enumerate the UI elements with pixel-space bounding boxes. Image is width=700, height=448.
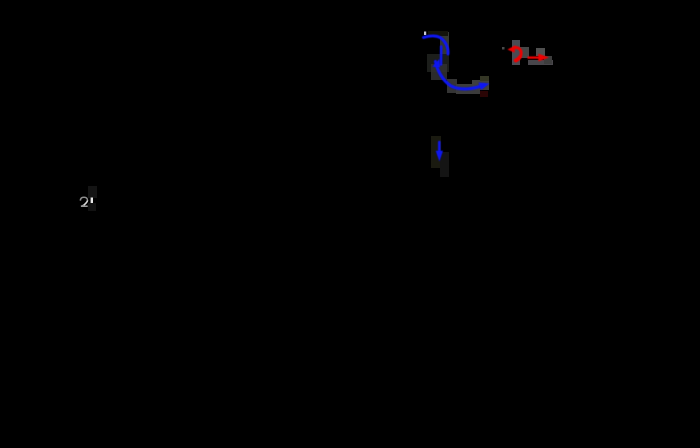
faint gray tick left of red arrow [502,47,505,50]
big blue sweeping arc [436,62,485,89]
arrowhead at left start of big arc (points down-left) [432,59,440,68]
faint marks near label 2 [88,186,97,198]
artifact halos around red arrows [512,40,553,65]
dark red artifact blob under arc end [480,91,488,97]
white tick next to label 2 [91,198,93,204]
red arrowhead pointing right [538,54,549,62]
blue hook curved arrow [424,36,449,54]
thicker blob at bottom of red arc [516,57,521,61]
label 2 [80,197,87,206]
white tail tick of hook arrow [424,32,426,36]
red arrowhead pointing left [508,45,516,53]
artifact halo along big arc [431,64,489,94]
small blue downward arrow [438,142,441,155]
arrowhead at right end of big arc [479,83,490,91]
blue vertical segment [440,47,443,65]
red curved arrow (small c-shape) [515,47,522,60]
artifact halo behind hook arrow [427,31,449,72]
red horizontal arrow [528,56,541,58]
artifact halos around small down arrow [431,136,449,177]
